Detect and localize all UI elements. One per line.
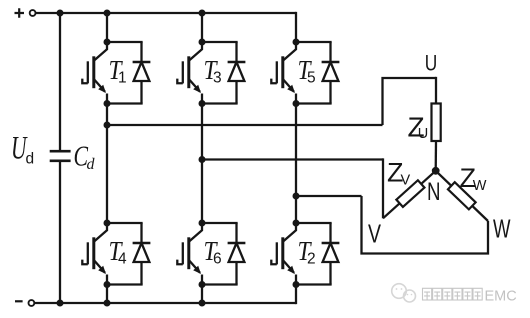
svg-text:6: 6 [213,250,222,267]
junction bottom rail at leg 2 [199,300,206,307]
junction T6 emitter node [199,281,206,288]
diode D6 (antiparallel with T6) [228,223,246,285]
watermark logo (two chat bubbles) [392,284,416,302]
wire leg 3 middle [295,104,297,224]
svg-text:5: 5 [307,69,316,86]
wire Cd branch upper [59,13,61,150]
svg-text:d: d [26,150,35,167]
transistor T1 (IGBT) [82,42,107,104]
transistor T6 (IGBT) [177,223,202,285]
junction T1 collector node [104,39,111,46]
junction top rail at leg 2 [199,10,206,17]
junction T3 collector node [199,39,206,46]
wire leg 2 upper [201,13,203,42]
impedance ZV [396,180,424,207]
junction node W tap on leg 3 [293,193,300,200]
wire W to ZW diagonal [436,171,488,221]
junction T6 collector node [199,220,206,227]
- terminal (DC negative) [15,300,23,302]
svg-text:W: W [473,178,487,194]
diode D2 (antiparallel with T2) [322,223,340,285]
diode D4 (antiparallel with T4) [133,223,151,285]
wire leg 2 lower [201,285,203,304]
svg-text:1: 1 [118,69,127,86]
wire DC- bottom rail [34,302,296,304]
wire phase V horizontal [202,158,383,160]
wire T1 diode branch top [107,41,143,43]
+ terminal (DC positive) [15,8,25,17]
wire phase V riser [382,158,384,218]
svg-text:U: U [418,126,428,142]
junction T5 collector node [293,39,300,46]
junction T1 emitter node [104,100,111,107]
svg-text:W: W [493,213,511,243]
wire leg 3 upper [295,12,297,42]
wire phase U horizontal [107,124,383,126]
transistor T4 (IGBT) [82,223,107,285]
wire T2 diode branch top [296,222,332,224]
junction bottom rail at Cd branch [57,300,64,307]
wire phase W horizontal [296,195,362,197]
transistor T2 (IGBT) [271,223,296,285]
svg-text:4: 4 [118,250,127,267]
wire leg 2 middle [201,104,203,224]
wire phase W down-across-up [362,196,489,254]
svg-text:V: V [401,173,411,189]
junction T3 emitter node [199,100,206,107]
diode D1 (antiparallel with T1) [133,42,151,104]
wire leg 1 middle [106,104,108,224]
wire T1 diode branch bottom [107,102,143,104]
diode D5 (antiparallel with T5) [322,42,340,104]
wire T3 diode branch top [202,41,238,43]
junction top rail at Cd branch [57,10,64,17]
wire T5 diode branch bottom [296,102,332,104]
transistor T3 (IGBT) [177,42,202,104]
svg-text:2: 2 [307,250,316,267]
junction top rail at leg 1 [104,10,111,17]
junction T2 emitter node [293,281,300,288]
wire leg 1 upper [106,13,108,42]
wire T4 diode branch top [107,222,143,224]
wire T2 diode branch bottom [296,283,332,285]
wire ZU to node N [435,141,438,171]
impedance ZU [432,104,441,142]
wire leg 3 lower [295,285,297,305]
junction node V tap on leg 2 [199,156,206,163]
wire T4 diode branch bottom [107,283,143,285]
wire Cd branch lower [59,162,61,303]
wire V to ZV diagonal [383,171,436,219]
junction T4 collector node [104,220,111,227]
wire T6 diode branch bottom [202,283,238,285]
capacitor Cd [50,150,71,153]
diode D3 (antiparallel with T3) [228,42,246,104]
svg-text:V: V [368,219,381,249]
transistor T5 (IGBT) [271,42,296,104]
impedance ZW [448,182,476,209]
node N (star point) [432,167,440,175]
watermark text 风陵渡口话EMC [423,288,483,300]
junction bottom rail at leg 1 [104,300,111,307]
wire leg 1 lower [106,285,108,304]
junction T2 collector node [293,220,300,227]
junction T5 emitter node [293,100,300,107]
svg-text:d: d [87,156,96,173]
wire T3 diode branch bottom [202,102,238,104]
svg-text:3: 3 [213,69,222,86]
wire U terminal drop [435,77,437,104]
svg-text:U: U [425,50,438,75]
junction node U tap on leg 1 [104,122,111,129]
wire DC+ top rail [36,12,297,14]
wire T6 diode branch top [202,222,238,224]
svg-text:EMC: EMC [485,288,517,304]
wire phase U riser [383,78,437,125]
svg-text:N: N [427,178,441,206]
wire T5 diode branch top [296,41,332,43]
junction T4 emitter node [104,281,111,288]
